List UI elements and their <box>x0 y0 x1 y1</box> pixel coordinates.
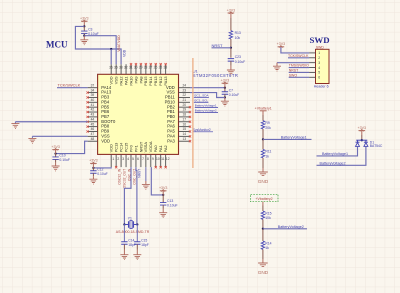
svg-text:10k: 10k <box>235 36 241 40</box>
svg-text:1: 1 <box>318 51 320 55</box>
svg-text:39: 39 <box>91 93 95 97</box>
svg-text:GND: GND <box>258 270 269 275</box>
svg-text:VDD: VDD <box>101 138 110 143</box>
svg-text:0.10uF: 0.10uF <box>97 172 108 176</box>
svg-text:11: 11 <box>161 157 165 161</box>
svg-text:42: 42 <box>91 108 95 112</box>
svg-text:+3V3: +3V3 <box>358 126 367 130</box>
svg-text:15: 15 <box>182 127 186 131</box>
svg-text:18: 18 <box>182 113 186 117</box>
svg-text:28: 28 <box>144 66 148 70</box>
svg-text:C13: C13 <box>167 199 173 203</box>
svg-text:36: 36 <box>109 66 113 70</box>
svg-text:20: 20 <box>182 103 186 107</box>
svg-text:BatteryVoltage1: BatteryVoltage1 <box>322 152 348 156</box>
svg-text:3: 3 <box>122 157 124 161</box>
svg-text:1k: 1k <box>265 246 269 250</box>
svg-text:+3V3: +3V3 <box>227 8 236 12</box>
svg-text:GND: GND <box>258 179 269 184</box>
svg-text:+Vbattery2: +Vbattery2 <box>255 197 272 201</box>
svg-text:2: 2 <box>117 157 119 161</box>
svg-text:16: 16 <box>182 122 186 126</box>
svg-text:SysMonitor2: SysMonitor2 <box>193 128 211 132</box>
svg-text:26: 26 <box>154 66 158 70</box>
svg-text:PA3: PA3 <box>167 138 175 143</box>
svg-text:22: 22 <box>182 93 186 97</box>
svg-text:19: 19 <box>182 108 186 112</box>
svg-text:0.10uF: 0.10uF <box>229 93 240 97</box>
svg-text:12: 12 <box>166 157 170 161</box>
svg-text:BatteryVoltage1: BatteryVoltage1 <box>195 104 217 108</box>
svg-text:I2C1_SDA: I2C1_SDA <box>194 94 210 98</box>
svg-text:29: 29 <box>139 66 143 70</box>
svg-text:0.10uF: 0.10uF <box>235 60 246 64</box>
svg-text:6: 6 <box>137 157 139 161</box>
svg-text:OSC_OUT: OSC_OUT <box>132 169 136 185</box>
svg-text:Header 6: Header 6 <box>314 84 329 88</box>
svg-text:4: 4 <box>127 157 129 161</box>
svg-text:20k: 20k <box>265 126 271 130</box>
svg-text:38: 38 <box>164 66 168 70</box>
svg-text:5: 5 <box>318 71 320 75</box>
svg-text:46: 46 <box>91 127 95 131</box>
svg-text:BatteryVoltage1: BatteryVoltage1 <box>281 135 307 139</box>
svg-text:18pF: 18pF <box>128 243 136 247</box>
svg-text:21: 21 <box>182 98 186 102</box>
svg-text:C15: C15 <box>141 238 147 242</box>
svg-text:C7: C7 <box>229 88 233 92</box>
svg-text:C12: C12 <box>97 167 103 171</box>
svg-text:SWD: SWD <box>316 45 324 49</box>
svg-text:+Vbattery1: +Vbattery1 <box>255 107 272 111</box>
svg-text:25: 25 <box>159 66 163 70</box>
svg-text:SWO: SWO <box>289 73 298 77</box>
svg-text:31: 31 <box>129 66 133 70</box>
svg-text:+3V3: +3V3 <box>221 78 230 82</box>
svg-text:+3V3: +3V3 <box>80 17 89 21</box>
svg-text:C14: C14 <box>128 238 134 242</box>
svg-text:40: 40 <box>91 98 95 102</box>
svg-text:5: 5 <box>132 157 134 161</box>
svg-text:VBAT/VDD: VBAT/VDD <box>117 35 121 52</box>
svg-text:BatteryVoltage2: BatteryVoltage2 <box>320 161 346 165</box>
svg-text:0.10uF: 0.10uF <box>167 204 178 208</box>
svg-text:NRST: NRST <box>289 69 299 73</box>
svg-text:BatteryVoltage2: BatteryVoltage2 <box>278 225 304 229</box>
svg-text:C23: C23 <box>235 55 241 59</box>
svg-text:SWD: SWD <box>310 35 330 45</box>
svg-text:+3V3: +3V3 <box>89 159 98 163</box>
svg-text:VDD: VDD <box>123 49 127 57</box>
svg-text:48: 48 <box>91 137 95 141</box>
svg-text:R9: R9 <box>265 121 269 125</box>
svg-text:R14: R14 <box>265 241 271 245</box>
svg-text:41: 41 <box>91 103 95 107</box>
svg-text:30: 30 <box>134 66 138 70</box>
svg-text:3: 3 <box>318 61 320 65</box>
svg-text:BatteryVoltage2: BatteryVoltage2 <box>195 109 217 113</box>
svg-text:27: 27 <box>149 66 153 70</box>
svg-text:C10: C10 <box>59 154 65 158</box>
svg-text:BAT54C: BAT54C <box>370 144 383 148</box>
svg-text:AS-8000-18-SMD-TR: AS-8000-18-SMD-TR <box>116 230 150 234</box>
svg-text:R15: R15 <box>265 211 271 215</box>
svg-text:14: 14 <box>182 132 186 136</box>
svg-text:18pF: 18pF <box>141 243 149 247</box>
svg-text:R13: R13 <box>235 31 241 35</box>
svg-text:TCK/SWCLK: TCK/SWCLK <box>58 83 81 88</box>
svg-text:C3: C3 <box>88 28 92 32</box>
svg-text:PA2: PA2 <box>163 145 168 152</box>
svg-text:45: 45 <box>91 122 95 126</box>
svg-text:+3V3: +3V3 <box>277 42 286 46</box>
svg-text:+3V3: +3V3 <box>51 145 60 149</box>
svg-text:17: 17 <box>182 117 186 121</box>
svg-text:13: 13 <box>182 137 186 141</box>
svg-text:+3V3: +3V3 <box>159 186 168 190</box>
svg-text:10: 10 <box>156 157 160 161</box>
svg-text:I2C1_SCL: I2C1_SCL <box>194 98 209 102</box>
svg-text:TCK/SWCLK: TCK/SWCLK <box>288 54 309 58</box>
svg-text:9: 9 <box>152 157 154 161</box>
svg-text:34: 34 <box>91 88 95 92</box>
svg-text:1: 1 <box>112 157 114 161</box>
svg-text:0.10uF: 0.10uF <box>59 158 70 162</box>
svg-text:TMS/SWDIO: TMS/SWDIO <box>289 64 309 68</box>
svg-text:47: 47 <box>91 132 95 136</box>
svg-text:44: 44 <box>91 117 95 121</box>
svg-text:37: 37 <box>91 83 95 87</box>
svg-text:8: 8 <box>147 157 149 161</box>
svg-text:32: 32 <box>124 66 128 70</box>
svg-text:35: 35 <box>114 66 118 70</box>
svg-text:NRST: NRST <box>212 43 223 48</box>
svg-text:NRST: NRST <box>137 169 141 178</box>
svg-text:MCU: MCU <box>46 40 68 50</box>
svg-text:4: 4 <box>318 66 320 70</box>
svg-text:23: 23 <box>182 88 186 92</box>
svg-text:7: 7 <box>142 157 144 161</box>
svg-text:24: 24 <box>182 83 186 87</box>
svg-text:2: 2 <box>318 56 320 60</box>
svg-text:43: 43 <box>91 113 95 117</box>
svg-text:OSC32_IN: OSC32_IN <box>118 168 122 185</box>
svg-text:OSC32_OUT: OSC32_OUT <box>123 169 127 189</box>
svg-text:R11: R11 <box>265 150 271 154</box>
svg-text:10k: 10k <box>265 216 271 220</box>
svg-text:33: 33 <box>119 66 123 70</box>
svg-text:6: 6 <box>318 76 320 80</box>
svg-text:Y1: Y1 <box>128 217 132 221</box>
svg-text:1k: 1k <box>265 155 269 159</box>
